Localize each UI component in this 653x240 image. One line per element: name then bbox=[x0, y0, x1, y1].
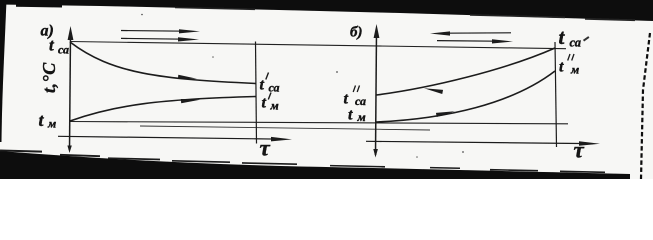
svg-text:t: t bbox=[262, 95, 267, 112]
upper curve a (t_ca) bbox=[70, 42, 256, 84]
lower curve a (t_m) bbox=[70, 97, 256, 122]
flow arrow 2 (a, right) bbox=[121, 37, 185, 40]
svg-text:са: са bbox=[269, 81, 280, 95]
upper curve b (agent) bbox=[377, 48, 556, 95]
svg-text:б): б) bbox=[350, 25, 362, 41]
svg-text:t,°С: t,°С bbox=[39, 62, 59, 93]
right vertical a bbox=[256, 42, 257, 144]
svg-text:са: са bbox=[570, 36, 581, 50]
svg-text:м: м bbox=[47, 117, 56, 131]
arrowhead on upper curve a bbox=[178, 75, 197, 81]
top black scan border bbox=[0, 0, 653, 21]
arrowhead on lower curve a bbox=[181, 98, 200, 104]
specks bbox=[336, 71, 338, 73]
long line t_m level bbox=[70, 122, 568, 124]
svg-text:м: м bbox=[357, 110, 366, 124]
svg-text:м: м bbox=[570, 63, 579, 77]
svg-text:t: t bbox=[39, 110, 45, 130]
flow arrow 1 (b, left) bbox=[444, 32, 511, 34]
svg-text:τ: τ bbox=[574, 138, 585, 163]
left black scan border bbox=[0, 0, 7, 142]
rotated axis label t,C bbox=[39, 62, 59, 93]
x-axis a arrowhead bbox=[271, 137, 292, 142]
svg-text:са: са bbox=[355, 94, 366, 108]
bottom black scan wedge bbox=[0, 151, 630, 179]
right arrowhead on lower curve b bbox=[436, 109, 455, 117]
y-axis a bbox=[70, 33, 71, 150]
x-axis a bbox=[58, 136, 285, 139]
lower curve b (material) bbox=[377, 71, 556, 122]
y-axis b bottom arrowhead bbox=[373, 149, 378, 158]
top border toner dash bbox=[16, 4, 62, 8]
flow arrow 1 (a, right) bbox=[121, 30, 186, 33]
svg-text:t: t bbox=[348, 107, 353, 124]
toner dashes above bottom wedge bbox=[0, 149, 42, 152]
svg-text:t: t bbox=[559, 59, 564, 76]
svg-text:t: t bbox=[344, 91, 349, 108]
flow arrow 2 (b, right) bbox=[437, 40, 496, 43]
second faint t_m line bbox=[140, 126, 430, 130]
y-axis a bottom arrowhead bbox=[67, 146, 71, 154]
svg-text:м: м bbox=[270, 99, 279, 113]
toner dashes under top band bbox=[175, 7, 255, 10]
right vertical b bbox=[555, 42, 557, 147]
svg-text:t: t bbox=[49, 36, 55, 55]
left arrowhead on upper curve b bbox=[424, 86, 443, 94]
y-axis a arrowhead bbox=[68, 26, 74, 40]
x-axis b arrowhead bbox=[579, 141, 600, 146]
svg-text:t: t bbox=[559, 25, 566, 49]
y-axis b arrowhead bbox=[374, 24, 380, 38]
svg-text:t: t bbox=[260, 77, 265, 94]
long line t_ca level bbox=[70, 42, 566, 49]
svg-text:са: са bbox=[58, 43, 69, 57]
y-axis b bbox=[376, 31, 377, 155]
right page-edge dashed line bbox=[641, 33, 650, 179]
svg-text:τ: τ bbox=[260, 136, 271, 161]
x-axis b bbox=[366, 141, 593, 143]
